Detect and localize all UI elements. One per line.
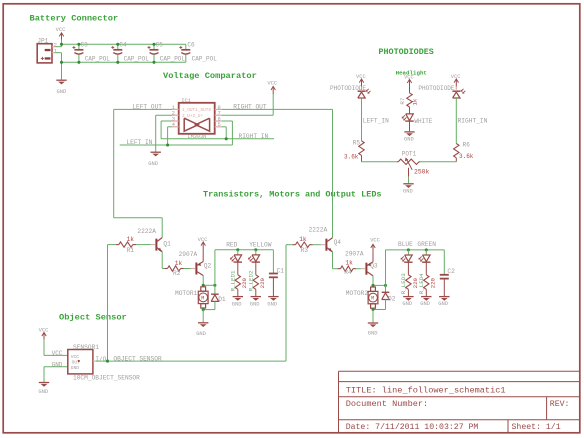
junction LEFT_IN pin4: [166, 143, 169, 146]
resistor R_LED3: [406, 275, 411, 296]
wire VCC to R7: [409, 86, 411, 93]
label VCC pin sensor: [52, 350, 63, 357]
svg-text:1k: 1k: [127, 236, 135, 243]
svg-text:R_LED4: R_LED4: [418, 273, 425, 294]
wire pin1 jog: [56, 53, 62, 63]
wire rail to gnd: [61, 62, 63, 79]
svg-text:R4: R4: [344, 269, 352, 276]
label 2907A Q2: [179, 251, 198, 258]
svg-text:1k: 1k: [345, 260, 353, 267]
photodiode left: [358, 87, 371, 98]
svg-text:10CM_OBJECT_SENSOR: 10CM_OBJECT_SENSOR: [73, 375, 140, 382]
label GND R_LED3: [402, 301, 412, 307]
svg-text:2222A: 2222A: [137, 228, 156, 235]
title text: [346, 386, 506, 396]
wire VCC to Q3 emitter: [372, 252, 374, 262]
svg-text:R3: R3: [301, 247, 309, 254]
svg-text:LEFT_IN: LEFT_IN: [126, 139, 152, 146]
svg-text:C3: C3: [81, 41, 89, 48]
svg-text:GND: GND: [250, 301, 260, 307]
label LM393N: [188, 134, 207, 140]
svg-text:GND: GND: [404, 136, 414, 142]
label 2222A Q4: [309, 226, 328, 233]
sheet text: [512, 422, 561, 432]
resistor R6: [454, 144, 459, 162]
ground battery: [56, 80, 66, 84]
svg-text:RIGHT_IN: RIGHT_IN: [239, 133, 269, 140]
resistor R7: [407, 93, 412, 107]
svg-text:1k: 1k: [411, 98, 418, 105]
wire motor1 to gnd: [202, 310, 204, 323]
svg-text:R7: R7: [399, 97, 406, 104]
svg-text:250k: 250k: [414, 169, 430, 176]
pin number 7: [218, 111, 221, 117]
label PHOTODIODE right: [418, 85, 454, 92]
svg-text:Document Number:: Document Number:: [346, 399, 429, 409]
label C5: [156, 41, 164, 48]
svg-text:I/O: I/O: [95, 356, 106, 363]
svg-text:VCC: VCC: [39, 327, 49, 333]
label MOTOR1: [175, 290, 198, 297]
wire BLUE to R_LED3: [407, 262, 409, 275]
wire pin7 to VCC: [222, 94, 274, 115]
svg-text:VCC: VCC: [56, 27, 66, 33]
date text: [346, 422, 479, 432]
transistor Q3: [361, 262, 373, 276]
label C1: [277, 267, 285, 274]
svg-text:VCC: VCC: [356, 74, 366, 80]
label YELLOW: [249, 241, 272, 248]
label 250k: [414, 169, 430, 176]
power VCC battery: [59, 33, 63, 40]
svg-text:C6: C6: [187, 41, 195, 48]
wire motor2 node: [373, 284, 386, 286]
svg-text:D2: D2: [388, 295, 396, 302]
svg-text:TITLE: line_follower_schematic: TITLE: line_follower_schematic1: [346, 386, 506, 396]
svg-text:Date: 7/11/2011 10:03:27 PM: Date: 7/11/2011 10:03:27 PM: [346, 422, 479, 432]
svg-text:2907A: 2907A: [345, 251, 364, 258]
svg-text:GND: GND: [232, 301, 242, 307]
label Q4: [334, 239, 342, 246]
junction motor2 top: [371, 284, 374, 287]
svg-text:1k: 1k: [299, 236, 307, 243]
svg-text:RIGHT_IN: RIGHT_IN: [458, 117, 488, 124]
svg-text:R_LED2: R_LED2: [247, 270, 254, 291]
svg-text:GREEN: GREEN: [417, 241, 436, 248]
svg-text:3.6k: 3.6k: [459, 153, 474, 160]
section title Voltage Comparator: [163, 71, 257, 81]
junction motor1 top: [202, 284, 205, 287]
label C6: [187, 41, 195, 48]
ground R_LED3: [403, 297, 413, 301]
power VCC IC1: [271, 86, 275, 94]
wire D2 bottom: [385, 300, 387, 310]
label Q2: [204, 262, 212, 269]
svg-text:R_LED1: R_LED1: [229, 270, 236, 291]
wire VCC to Q2 emitter: [202, 249, 204, 262]
wire D1 bottom: [214, 301, 216, 309]
LED WHITE: [402, 114, 414, 121]
wire OBJECT_SENSOR: [96, 360, 286, 362]
capacitor C3: [72, 44, 83, 62]
wire VCC to rail: [61, 40, 63, 45]
label VCC right photodiode: [451, 74, 461, 80]
svg-text:220: 220: [259, 277, 266, 288]
wire to R1: [108, 244, 116, 246]
label VCC sensor: [39, 327, 49, 333]
potentiometer POT1: [397, 157, 421, 176]
svg-text:C2: C2: [447, 268, 455, 275]
svg-text:GND: GND: [52, 362, 63, 369]
label GND motor2: [368, 330, 378, 336]
label 3.6k R6: [459, 153, 474, 160]
label CAP_POL C4: [124, 55, 150, 62]
label CAP_POL C3: [85, 55, 111, 62]
label PHOTODIODE left: [330, 85, 366, 92]
wire LEFT_IN photo: [361, 98, 363, 141]
wire YELLOW to R_LED2: [255, 262, 257, 275]
label 220 R_LED4: [430, 277, 437, 288]
svg-text:LEFT_OUT: LEFT_OUT: [132, 103, 162, 110]
svg-text:Q4: Q4: [334, 239, 342, 246]
label VCC left photodiode: [356, 74, 366, 80]
label 1k R4: [345, 260, 353, 267]
svg-text:MOTOR2: MOTOR2: [346, 290, 369, 297]
svg-text:C1: C1: [277, 267, 285, 274]
label R3: [301, 247, 309, 254]
svg-text:1_OUT1_OUT8: 1_OUT1_OUT8: [182, 108, 211, 113]
junction cap C5 bottom: [152, 61, 155, 64]
label GND motor1: [196, 331, 206, 337]
wire sensor VCC: [44, 340, 68, 356]
ground R_LED1: [233, 297, 243, 301]
svg-text:M: M: [201, 295, 204, 301]
junction motor2 bottom: [371, 308, 374, 311]
LED BLUE: [401, 250, 413, 262]
label GND IC1: [148, 161, 158, 167]
power VCC Q2: [201, 242, 205, 249]
LED GREEN: [419, 250, 431, 262]
sensor SENSOR1: [68, 350, 96, 374]
svg-text:JP1: JP1: [37, 37, 48, 44]
pin number 3: [172, 116, 175, 122]
svg-text:BLUE: BLUE: [398, 241, 413, 248]
label R6: [463, 141, 471, 148]
title block: [339, 371, 581, 433]
svg-text:Voltage Comparator: Voltage Comparator: [163, 71, 257, 81]
wire LED rail left: [215, 249, 274, 251]
svg-text:220: 220: [430, 277, 437, 288]
svg-text:MOTOR1: MOTOR1: [175, 290, 198, 297]
label GND pin sensor: [52, 362, 63, 369]
svg-text:1: 1: [54, 49, 57, 55]
svg-text:Sheet: 1/1: Sheet: 1/1: [512, 422, 561, 432]
label 2907A Q3: [345, 251, 364, 258]
ground motor1: [198, 323, 208, 327]
wire motor2 bottom: [373, 308, 386, 309]
label GND sensor: [38, 389, 48, 395]
resistor R1: [116, 242, 151, 247]
transistor Q1: [151, 238, 162, 253]
label Headlight: [396, 70, 427, 77]
label 220 R_LED1: [241, 277, 248, 288]
label LEFT_IN: [126, 139, 152, 146]
power VCC headlight: [407, 79, 411, 86]
label D1: [218, 296, 226, 303]
label R7: [399, 97, 406, 104]
wire to D2: [385, 285, 387, 292]
section title Battery Connector: [30, 14, 119, 24]
pin number 1: [172, 105, 175, 111]
label R2: [173, 270, 181, 277]
label C4: [119, 41, 127, 48]
wire pin2 jog: [56, 44, 62, 46]
wire to D1: [214, 285, 216, 294]
svg-text:D1: D1: [218, 296, 226, 303]
wire riser to LED rail right: [385, 250, 387, 286]
wire LED to gnd: [409, 121, 411, 131]
svg-text:PHOTODIODE: PHOTODIODE: [418, 85, 454, 92]
section title Object Sensor: [59, 313, 127, 323]
junction battery top: [60, 43, 63, 46]
label 10CM_OBJECT_SENSOR: [73, 375, 140, 382]
wire R6 to POT1: [420, 161, 456, 163]
svg-text:1k: 1k: [175, 260, 183, 267]
svg-text:R1: R1: [127, 247, 135, 254]
pin 1 label: [54, 49, 57, 55]
svg-text:SENSOR1: SENSOR1: [73, 344, 99, 351]
svg-text:GND: GND: [267, 301, 277, 307]
label BLUE: [398, 241, 413, 248]
label VCC headlight: [404, 74, 414, 80]
wire LEFT_OUT: [114, 109, 172, 237]
svg-text:3.6k: 3.6k: [344, 154, 359, 161]
svg-text:R2: R2: [173, 270, 181, 277]
svg-text:R6: R6: [463, 141, 471, 148]
junction D1 top: [213, 284, 216, 287]
wire RIGHT_OUT: [222, 109, 333, 237]
wire RIGHT_IN photo: [455, 98, 457, 144]
junction GREEN led: [425, 248, 428, 251]
junction cap C4 bottom: [116, 61, 119, 64]
junction battery bottom: [60, 61, 63, 64]
svg-text:GND: GND: [438, 301, 448, 307]
label 2222A Q1: [137, 228, 156, 235]
pin number 5: [218, 122, 221, 128]
label GND POT1: [403, 188, 413, 194]
wire LED rail right: [386, 249, 445, 251]
wire RED to R_LED1: [237, 262, 239, 275]
diode D1: [211, 294, 219, 301]
transistor Q2: [191, 262, 203, 276]
label OBJECT_SENSOR: [113, 355, 162, 362]
label R_LED3: [400, 273, 407, 294]
svg-text:Q2: Q2: [204, 262, 212, 269]
power VCC Q3: [371, 244, 375, 251]
svg-text:IC1: IC1: [181, 97, 192, 104]
svg-text:LEFT_IN: LEFT_IN: [363, 117, 389, 124]
svg-text:GND: GND: [71, 365, 80, 371]
motor MOTOR1: [198, 287, 208, 308]
junction RIGHT_IN pin5: [225, 137, 228, 140]
label I/O: [95, 356, 106, 363]
pin 2 label: [54, 42, 57, 48]
svg-text:Object Sensor: Object Sensor: [59, 313, 127, 323]
wire riser to LED rail left: [214, 250, 216, 285]
pin number 8: [218, 105, 221, 111]
svg-text:GND: GND: [148, 161, 158, 167]
power VCC left photodiode: [359, 79, 363, 87]
pin number 4: [172, 122, 175, 128]
svg-text:OBJECT_SENSOR: OBJECT_SENSOR: [113, 355, 162, 362]
wire Q4 emitter to R4: [333, 252, 338, 269]
svg-text:VCC: VCC: [52, 350, 63, 357]
svg-text:Q3: Q3: [370, 263, 378, 270]
svg-text:VCC: VCC: [71, 354, 80, 360]
label CAP_POL C5: [160, 55, 186, 62]
svg-text:Battery Connector: Battery Connector: [30, 14, 119, 24]
resistor R5: [359, 141, 364, 162]
label 1k R2: [175, 260, 183, 267]
wire to R3: [286, 244, 293, 246]
wire LEFT_IN: [120, 121, 233, 145]
wire sensor GND: [44, 367, 68, 382]
label GND battery: [57, 89, 67, 95]
wire R7 to LED: [409, 107, 411, 114]
label VCC IC1: [267, 81, 277, 87]
ground POT1: [403, 184, 413, 188]
svg-text:C5: C5: [156, 41, 164, 48]
ground IC1: [151, 152, 161, 156]
junction RED led: [236, 248, 239, 251]
resistor R2: [165, 266, 191, 271]
label C3: [81, 41, 89, 48]
label R_LED2: [247, 270, 254, 291]
capacitor C2: [440, 250, 449, 296]
motor MOTOR2: [368, 287, 378, 308]
junction cap C4 top: [116, 43, 119, 46]
svg-text:REV:: REV:: [550, 400, 570, 409]
label VCC battery: [56, 27, 66, 33]
svg-text:Transistors, Motors and Output: Transistors, Motors and Output LEDs: [203, 190, 382, 200]
junction BLUE led: [407, 248, 410, 251]
transistor Q4: [321, 238, 333, 253]
section title PHOTODIODES: [379, 47, 434, 57]
label R4: [344, 269, 352, 276]
svg-text:GND: GND: [403, 188, 413, 194]
diode D2: [382, 292, 390, 299]
pin number 6: [218, 116, 221, 122]
pin number 2: [172, 111, 175, 117]
wire Q2 collector: [202, 276, 204, 286]
ground C1: [268, 297, 278, 301]
svg-text:VCC: VCC: [451, 74, 461, 80]
label 220 R_LED2: [259, 277, 266, 288]
wire motor node: [203, 284, 215, 286]
svg-text:CAP_POL: CAP_POL: [85, 55, 111, 62]
power VCC sensor: [42, 333, 46, 340]
wire Q1 emitter to R2: [162, 252, 164, 269]
label JP1: [37, 37, 48, 44]
wire bottom rail: [62, 61, 186, 63]
label Q1: [163, 240, 171, 247]
label GND C2: [438, 301, 448, 307]
svg-text:PHOTODIODES: PHOTODIODES: [379, 47, 434, 57]
section title Transistors, Motors and Output LEDs: [203, 190, 382, 200]
label C2: [447, 268, 455, 275]
label MOTOR2: [346, 290, 369, 297]
wire motor1 bottom: [203, 308, 215, 310]
label VCC Q3: [370, 237, 380, 243]
label GND R_LED4: [420, 301, 430, 307]
wire motor2 to gnd: [372, 310, 374, 323]
svg-text:CAP_POL: CAP_POL: [124, 55, 150, 62]
svg-text:2_U+2_U+: 2_U+2_U+: [182, 114, 203, 119]
junction cap C5 top: [152, 43, 155, 46]
svg-text:CAP_POL: CAP_POL: [160, 55, 186, 62]
connector JP1: [37, 44, 55, 63]
ground sensor: [39, 383, 49, 387]
label R1: [127, 247, 135, 254]
label GND headlight: [404, 136, 414, 142]
resistor R4: [338, 266, 361, 271]
svg-text:POT1: POT1: [402, 151, 417, 158]
svg-text:PHOTODIODE: PHOTODIODE: [330, 85, 366, 92]
capacitor C5: [148, 44, 159, 62]
svg-text:2907A: 2907A: [179, 251, 198, 258]
label GND R_LED1: [232, 301, 242, 307]
label LEFT_OUT: [132, 103, 162, 110]
wire pin2 to gnd: [156, 115, 172, 151]
wire object_sensor riser right: [285, 245, 287, 361]
ground R_LED2: [251, 297, 261, 301]
svg-text:GND: GND: [196, 331, 206, 337]
LED RED: [230, 250, 242, 262]
ground headlight: [404, 132, 414, 136]
svg-text:CAP_POL: CAP_POL: [192, 55, 218, 62]
label RED: [226, 241, 237, 248]
ground motor2: [368, 323, 378, 327]
svg-text:2222A: 2222A: [309, 226, 328, 233]
svg-text:VCC: VCC: [267, 81, 277, 87]
svg-text:VCC: VCC: [198, 237, 208, 243]
junction object sensor: [106, 360, 109, 363]
wire R5 to POT1: [362, 161, 397, 163]
label WHITE: [414, 118, 432, 125]
junction motor1 bottom: [202, 308, 205, 311]
photodiode right: [452, 87, 465, 98]
label GND C1: [267, 301, 277, 307]
svg-text:M: M: [371, 296, 374, 302]
wire GREEN to R_LED4: [425, 262, 427, 275]
resistor R_LED2: [253, 275, 258, 296]
svg-text:RIGHT_OUT: RIGHT_OUT: [233, 103, 267, 110]
rev label: [550, 400, 570, 409]
svg-text:GND: GND: [38, 389, 48, 395]
label 1k R7: [411, 98, 418, 105]
svg-text:GND: GND: [368, 330, 378, 336]
label R_LED4: [418, 273, 425, 294]
ground C2: [439, 297, 449, 301]
label D2: [388, 295, 396, 302]
op-amp IC1: [172, 103, 222, 134]
label RIGHT_IN: [239, 133, 269, 140]
label GND R_LED2: [250, 301, 260, 307]
capacitor C4: [111, 44, 122, 62]
LED YELLOW: [248, 250, 260, 262]
svg-text:GND: GND: [57, 89, 67, 95]
wire object_sensor riser left: [107, 245, 109, 362]
